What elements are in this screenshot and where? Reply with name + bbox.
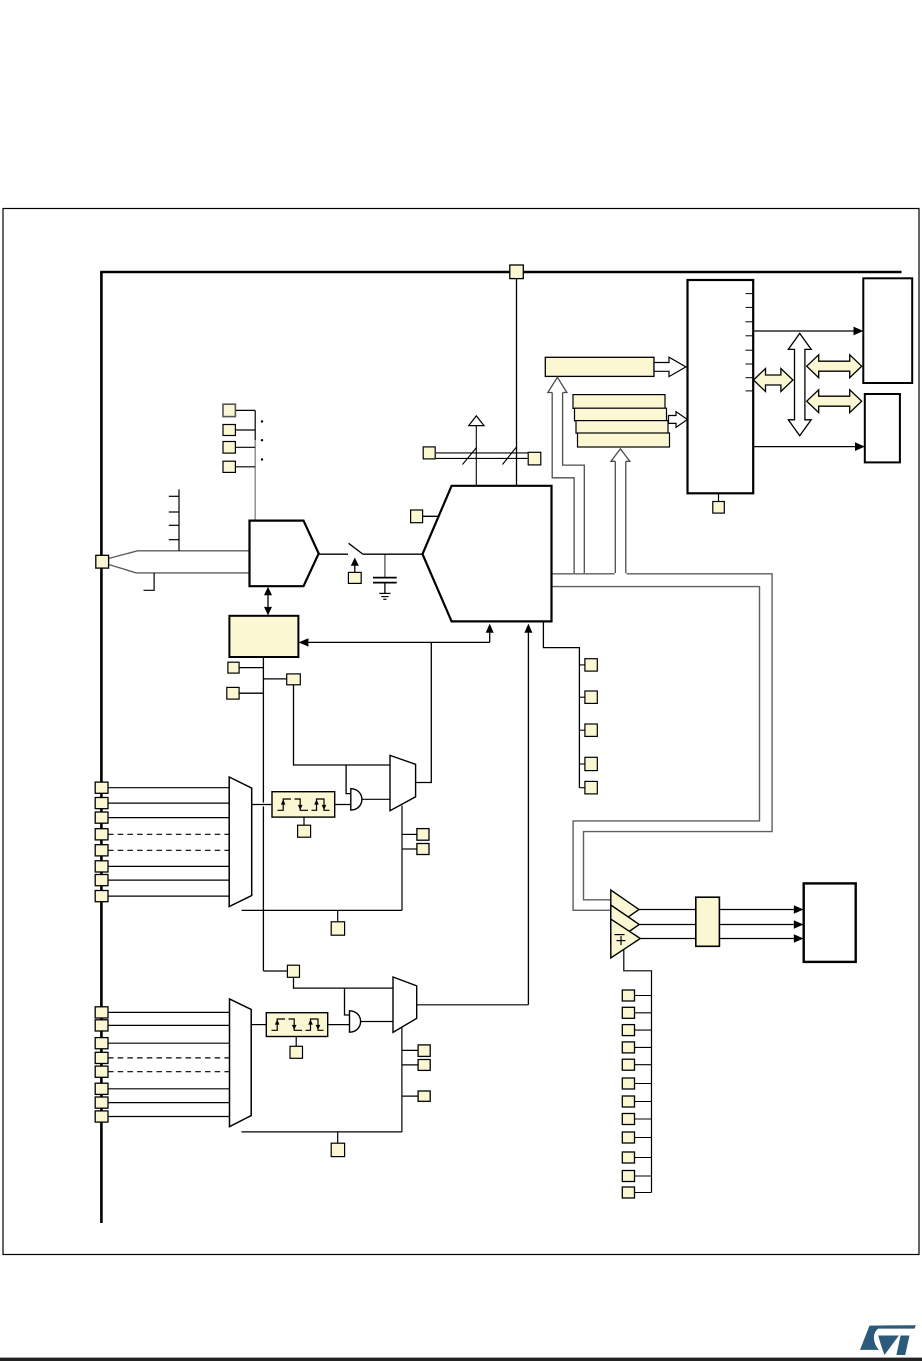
bidirectional arrow mux-CR box — [267, 594, 269, 609]
input lines group 2 — [108, 1012, 230, 1116]
wire big register block to data bus rect2 — [753, 446, 856, 448]
control register yellow box — [229, 616, 298, 657]
comparator triangle 3 — [611, 919, 641, 958]
hanging square 1 — [337, 910, 339, 921]
yellow double arrow block-to-vbus — [754, 369, 793, 392]
select mux 1 — [390, 755, 416, 810]
wire sample capacitor stem — [384, 554, 386, 577]
arrowhead into data rect1 — [854, 327, 864, 336]
big register block — [688, 280, 754, 493]
watchdog result block — [804, 883, 856, 962]
wire ADC data out upper (to watchdog comparators) — [552, 573, 615, 575]
sample-and-hold control square + arrow — [348, 572, 361, 583]
node square on left bus — [96, 555, 109, 568]
G_MAIN — [100, 272, 901, 1223]
block arrow stacked bars to register block — [669, 412, 688, 428]
wire slashed control bus upper line — [436, 452, 528, 454]
arrowhead start-of-conversion into ADC bottom — [486, 624, 494, 633]
ellipsis dots — [261, 420, 263, 422]
wire trigger-enable net lower — [294, 977, 394, 988]
wire CR right bit square stub — [263, 678, 286, 680]
yellow double arrow vbus-to-rect2 — [807, 390, 862, 413]
control square left of slashed bus — [423, 447, 435, 459]
comparator +/- marks — [615, 934, 625, 936]
small square below big register block — [718, 493, 720, 501]
wire bottom line 1 — [242, 909, 402, 911]
wire analog input funnel top edge — [109, 551, 250, 559]
edge detection box 2 — [266, 1013, 327, 1037]
stacked threshold register bars — [573, 395, 665, 409]
wire gate 1 to mux2 — [362, 798, 390, 800]
select mux lower — [393, 977, 417, 1032]
register block bit ticks — [746, 294, 754, 391]
ADC converter trapezoid — [423, 486, 552, 622]
gate 1 — [351, 789, 362, 810]
wire multiwire tick line above funnel — [178, 489, 180, 550]
data register bar — [545, 357, 654, 376]
G_WATCHDOG (comparators and result) — [611, 883, 856, 1198]
wire bottom line 2 — [241, 1131, 402, 1133]
arrowhead into CR box right edge — [299, 638, 309, 646]
wire top supply bus — [100, 271, 901, 274]
edge glyphs 1 — [278, 799, 330, 810]
status squares right 1 — [402, 833, 417, 835]
CR bit square right (trigger enable upper) — [287, 674, 301, 685]
wire lower mux2 output — [417, 1004, 529, 1006]
edge glyphs 2 — [272, 1019, 324, 1030]
wire channel select squares to mux (black part) — [254, 410, 256, 440]
ground — [379, 592, 390, 594]
pin squares group 2 on left bus — [95, 1007, 108, 1122]
wire gate 2 to mux2 — [361, 1021, 393, 1023]
wire control reg net to CR box / ADC start arrow — [308, 641, 490, 643]
wire edge box 1 to gate — [335, 804, 351, 806]
wire ADC data out lower (to watchdog comparators) — [552, 587, 760, 911]
arrowhead into data rect2 — [855, 442, 865, 451]
comparator output lines — [639, 910, 794, 939]
arrowhead ext-trigger into ADC bottom — [524, 624, 532, 633]
trigger mux 1 — [229, 777, 252, 907]
wire switch to ADC tip — [363, 553, 423, 555]
wire ext trigger arrow stem (from lower mux2) — [527, 632, 529, 1005]
edge box 2 control square — [295, 1037, 297, 1047]
footer bar — [0, 1358, 922, 1361]
comparator triangle 1 — [611, 890, 639, 929]
wire mux tip to switch — [319, 553, 348, 555]
hollow arrow data-out to threshold bars — [611, 449, 630, 573]
channel ladder squares — [622, 990, 634, 1198]
G_SECTION_LOWER (trigger group 2) — [95, 977, 528, 1157]
trigger mux 2 — [230, 999, 252, 1127]
watchdog delivery box — [696, 897, 720, 946]
bus-width slash left — [463, 448, 477, 465]
yellow double arrow vbus-to-rect1 — [807, 355, 862, 378]
comparator triangle 2 — [611, 905, 640, 944]
wire mux to edge box 2 — [251, 1024, 266, 1026]
switch blade — [349, 543, 363, 554]
G_SECTION_UPPER (trigger group 1) — [95, 755, 429, 935]
gate 2 — [350, 1011, 361, 1032]
hanging square 2 — [337, 1132, 339, 1143]
wire analog input funnel bottom edge — [109, 565, 250, 573]
bus-width slash right — [503, 448, 517, 465]
G_BLOCKS — [96, 265, 912, 977]
wire trigger-enable net upper — [294, 685, 391, 765]
arrowheads into watchdog result block — [794, 905, 804, 913]
ST logo — [860, 1325, 916, 1355]
white vertical double arrow — [788, 333, 811, 435]
wire left vertical bus — [100, 272, 103, 1223]
wire start-of-conversion arrow stem — [489, 632, 491, 643]
wire from top node down to ADC top — [516, 279, 518, 486]
wire mux2 upper output riser — [416, 642, 432, 782]
wire sample control stub — [354, 565, 356, 572]
pin squares group 1 on left bus — [95, 782, 108, 902]
edge detection box 1 — [272, 792, 335, 817]
node square on top bus — [510, 265, 524, 279]
wire reference triangle to ADC top — [475, 426, 477, 486]
wire channel-select to input mux (gray part) — [254, 440, 256, 521]
wire ADC bottom to 5 control squares column — [543, 621, 579, 787]
wire CR left bit squares stubs — [239, 667, 263, 669]
capacitor plates — [373, 577, 397, 579]
wire mux1 to edge box — [252, 804, 272, 806]
CR bit square left 1 — [228, 662, 239, 673]
wire right column 2 — [401, 1027, 403, 1132]
figure frame — [3, 209, 919, 1255]
block arrow data bar to register block — [654, 357, 686, 376]
wire slashed control bus lower line — [436, 457, 528, 459]
wire capacitor to ground — [384, 583, 386, 594]
G_WIRES_GRAY — [109, 440, 773, 910]
wire right column 1 — [401, 806, 403, 911]
5 watchdog control squares — [585, 659, 597, 794]
wire edge box 2 to gate — [328, 1024, 350, 1026]
data bus rect2 — [865, 394, 900, 462]
wire big register block to data bus rect1 — [753, 330, 855, 332]
data bus rect1 — [863, 278, 912, 383]
control square at ADC left slant — [411, 510, 423, 523]
control square right of slashed bus — [528, 452, 541, 465]
wire funnel lower tick L — [144, 573, 155, 590]
status squares right 2 — [402, 1049, 418, 1051]
wire CR box bottom vertical — [262, 657, 264, 803]
input lines group 1 — [108, 788, 229, 896]
input mux pentagon — [250, 521, 319, 587]
trigger enable square lower — [287, 965, 299, 977]
wire comparator 3 to channel ladder — [624, 949, 652, 1192]
hollow arrow data-out to data bar (with jog) — [548, 377, 585, 573]
channel select squares column — [223, 404, 235, 416]
reference triangle — [469, 416, 484, 426]
CR bit square left 2 — [227, 687, 239, 699]
edge box 1 control square — [303, 817, 305, 825]
wire control square stub to ADC slant — [423, 515, 439, 517]
